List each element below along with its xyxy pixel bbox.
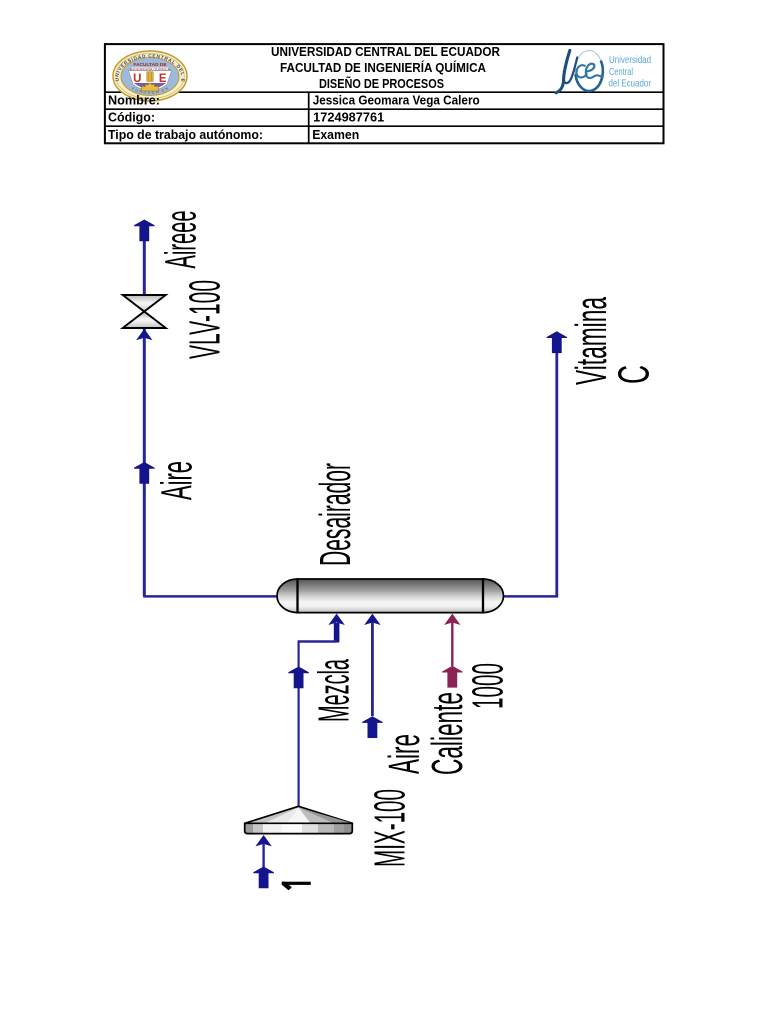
wire: Aire Caliente stream (364, 614, 380, 625)
svg-text:Aireee: Aireee (157, 211, 206, 269)
wire: 1000 stream (maroon) (444, 614, 460, 625)
svg-text:MIX-100: MIX-100 (366, 789, 415, 867)
svg-text:FACULTAD DE INGENIERÍA QUÍMICA: FACULTAD DE INGENIERÍA QUÍMICA (280, 60, 486, 75)
svg-text:Aire: Aire (153, 461, 202, 500)
wire: Vitamina C riser (555, 352, 558, 598)
table outer border (105, 44, 664, 143)
svg-text:U: U (133, 73, 141, 85)
svg-text:1000: 1000 (464, 663, 513, 709)
ellipse ring (575, 51, 603, 91)
svg-text:E: E (159, 73, 167, 85)
wire: horizontal into vessel left (143, 595, 280, 598)
svg-text:VLV-100: VLV-100 (181, 280, 230, 359)
wire: valve to vessel vertical (143, 328, 146, 596)
svg-text:DISEÑO DE PROCESOS: DISEÑO DE PROCESOS (319, 76, 444, 91)
side text (609, 55, 652, 89)
arrow Mezcla mid block (288, 667, 309, 689)
e (586, 64, 603, 78)
svg-text:C: C (610, 365, 659, 384)
row texts (108, 93, 480, 141)
svg-text:Central: Central (609, 67, 633, 78)
gold column center (147, 72, 153, 82)
gold castle (141, 83, 159, 91)
svg-text:Mezcla: Mezcla (310, 659, 359, 722)
c (576, 65, 586, 77)
svg-text:Aire: Aire (380, 734, 429, 774)
header cell text (271, 45, 500, 91)
mixer MIX-100 (244, 806, 353, 835)
table inner gridlines (104, 91, 664, 93)
svg-text:UNIVERSIDAD CENTRAL DEL ECUADO: UNIVERSIDAD CENTRAL DEL ECUADOR (271, 45, 500, 59)
vessel Desairador (horizontal capsule) (277, 578, 503, 614)
wire: feed 1 into mixer (255, 835, 271, 846)
shield (129, 71, 172, 91)
arrow below valve (136, 329, 152, 340)
arrow Aire mid block (134, 462, 155, 484)
wire: vessel right to riser (501, 595, 558, 598)
wire: Mezcla arrow + thick stem into vessel bottom (328, 614, 344, 625)
svg-text:Desairador: Desairador (311, 463, 360, 566)
svg-text:Jessica Geomara Vega Calero: Jessica Geomara Vega Calero (313, 93, 480, 107)
svg-text:Nombre:: Nombre: (108, 93, 160, 107)
valve VLV-100 (123, 295, 166, 328)
white band (131, 67, 170, 71)
svg-text:1724987761: 1724987761 (313, 111, 384, 125)
arrow Vitamina top block (547, 331, 568, 353)
svg-text:Examen: Examen (312, 128, 359, 142)
svg-text:del Ecuador: del Ecuador (609, 79, 652, 90)
svg-text:Tipo de trabajo autónomo:: Tipo de trabajo autónomo: (108, 128, 263, 142)
U stroke (556, 51, 570, 93)
purple wedge (134, 83, 166, 89)
svg-text:Código:: Código: (108, 111, 155, 125)
label 1 (282, 882, 311, 891)
svg-text:Universidad: Universidad (609, 55, 651, 66)
arrow Aireee top block (134, 220, 155, 242)
wire: Aireee stream vertical above valve (143, 240, 146, 296)
labels (rotated -90) (153, 211, 659, 891)
